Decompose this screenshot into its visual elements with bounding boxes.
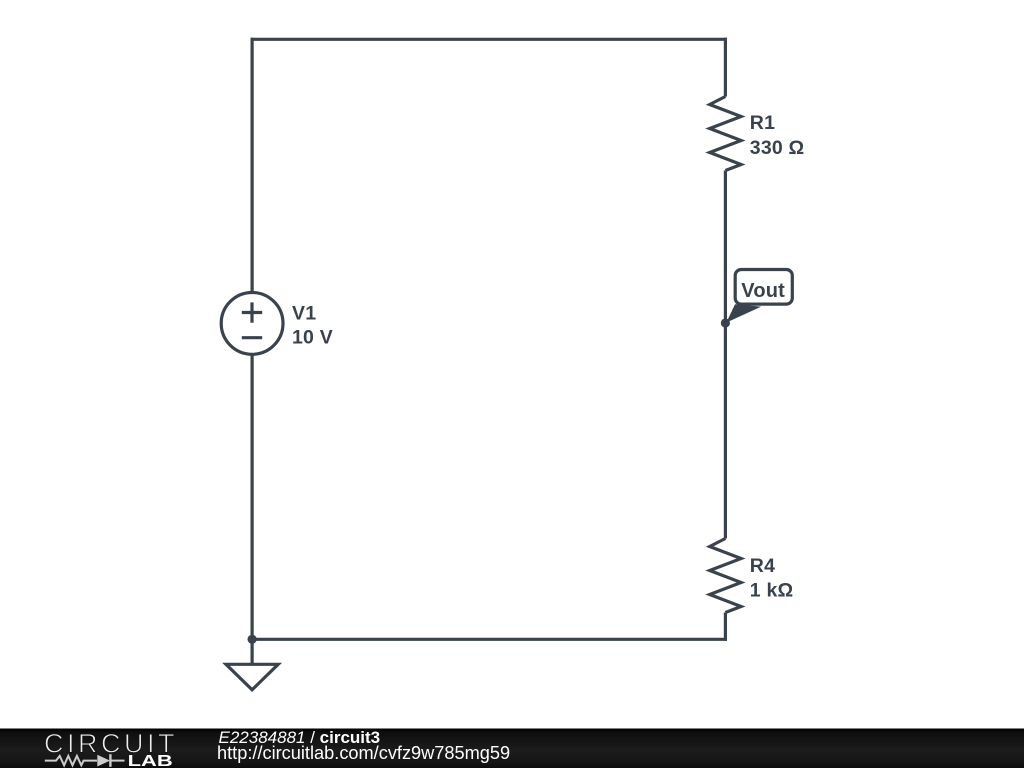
svg-text:LAB: LAB xyxy=(128,753,173,768)
CircuitLab logo wordmark CIRCUIT xyxy=(44,728,178,758)
wire right vertical middle (R1 to R4 through Vout node) xyxy=(724,171,727,539)
svg-text:R4: R4 xyxy=(750,555,775,577)
wire right vertical lower (R4 to bottom wire) xyxy=(724,613,727,641)
svg-text:1 kΩ: 1 kΩ xyxy=(750,580,794,602)
svg-text:R1: R1 xyxy=(750,112,775,134)
wire right vertical upper (top wire to R1) xyxy=(724,38,727,97)
CircuitLab logo resistor-diode glyph xyxy=(45,754,125,767)
CircuitLab logo wordmark LAB xyxy=(128,753,173,768)
footer url xyxy=(217,743,510,763)
label V1 xyxy=(292,303,316,325)
voltage source V1 xyxy=(221,293,283,355)
resistor R4 body xyxy=(710,539,741,613)
wire left vertical upper (top wire to V1 top) xyxy=(251,38,254,295)
node Vout junction dot xyxy=(721,318,730,327)
wire bottom horizontal xyxy=(251,638,727,641)
node Vout label text xyxy=(741,280,785,302)
value 1 kΩ xyxy=(750,580,794,602)
value 330 Ω xyxy=(750,137,805,159)
ground junction dot xyxy=(248,635,257,644)
footer title E22384881 / circuit3 xyxy=(219,728,381,747)
svg-text:V1: V1 xyxy=(292,303,316,325)
wire left vertical lower (V1 bottom to ground node) xyxy=(251,352,254,639)
label R1 xyxy=(750,112,775,134)
node Vout callout box xyxy=(735,270,792,305)
wire top horizontal xyxy=(251,38,728,41)
footer bar xyxy=(0,729,1024,768)
node Vout callout tail xyxy=(726,304,761,322)
label R4 xyxy=(750,555,775,577)
ground symbol xyxy=(226,639,278,690)
svg-text:330 Ω: 330 Ω xyxy=(750,137,805,159)
svg-text:http://circuitlab.com/cvfz9w78: http://circuitlab.com/cvfz9w785mg59 xyxy=(217,743,510,763)
value 10 V xyxy=(292,326,333,348)
resistor R1 body xyxy=(710,97,741,171)
svg-text:10 V: 10 V xyxy=(292,326,333,348)
svg-text:Vout: Vout xyxy=(741,280,785,302)
